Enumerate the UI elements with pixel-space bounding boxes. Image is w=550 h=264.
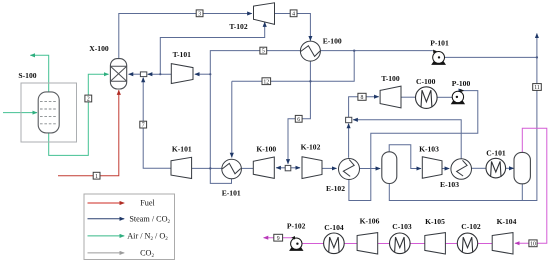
wire E-102 to V-100 xyxy=(360,168,380,170)
arrow on P-100 outlet xyxy=(460,90,464,92)
wire fuel feed red (stream 1) xyxy=(58,90,119,176)
wire V-101 bottom stub xyxy=(521,184,523,201)
pump P-100 xyxy=(451,89,465,104)
svg-text:X-100: X-100 xyxy=(89,44,109,53)
svg-text:K-100: K-100 xyxy=(256,145,276,154)
svg-text:C-103: C-103 xyxy=(392,222,412,231)
wire T-100 to C-100 xyxy=(401,96,416,98)
svg-text:E-100: E-100 xyxy=(323,37,342,46)
svg-text:K-102: K-102 xyxy=(301,143,321,152)
svg-text:8: 8 xyxy=(361,95,364,101)
wire splitter to K-102 xyxy=(291,167,300,169)
svg-text:S-100: S-100 xyxy=(18,71,36,80)
stream box 6 xyxy=(295,115,302,123)
heat exchanger E-103 xyxy=(451,159,472,180)
svg-text:12: 12 xyxy=(263,79,269,85)
svg-text:Steam / CO2: Steam / CO2 xyxy=(129,215,170,225)
stream box 7 xyxy=(140,121,147,129)
svg-text:P-101: P-101 xyxy=(430,39,449,48)
wire stream 5 E-100 left down to E-101 bottom loop xyxy=(210,51,300,184)
wire P-100 return loop to E-102 bottom xyxy=(349,91,478,201)
flash drum V-101 xyxy=(514,152,530,183)
pump P-101 xyxy=(431,50,446,65)
wire T-102 bottom feed xyxy=(160,22,264,74)
junction dot 1 xyxy=(209,167,211,169)
wire S-100 top green out xyxy=(30,55,48,92)
stream box 1 xyxy=(93,172,100,180)
svg-text:C-102: C-102 xyxy=(461,222,481,231)
cooler C-100 xyxy=(416,87,438,109)
svg-text:T-101: T-101 xyxy=(173,50,191,59)
wire E-103 to C-101 xyxy=(472,167,487,169)
compressor K-101 xyxy=(171,157,192,178)
stream box 12 xyxy=(262,78,271,86)
legend steam arrow xyxy=(88,218,125,220)
cooler C-103 xyxy=(390,233,411,254)
svg-text:Air / N2 / O2: Air / N2 / O2 xyxy=(127,232,168,242)
wire T-101 out to mixer node xyxy=(148,73,172,75)
wire air feed green into S-100 xyxy=(3,112,37,114)
S-100 enclosure xyxy=(21,83,77,142)
svg-text:K-105: K-105 xyxy=(425,217,445,226)
turbine T-102 xyxy=(254,3,275,25)
svg-text:Fuel: Fuel xyxy=(140,199,155,208)
heat exchanger E-102 xyxy=(339,159,360,180)
svg-text:10: 10 xyxy=(530,241,536,247)
vessel S-100 xyxy=(38,92,59,133)
stream box 5 xyxy=(260,47,267,55)
wire E-101 right to K-100 xyxy=(241,167,253,169)
heat exchanger E-100 xyxy=(300,41,320,61)
compressor K-104 xyxy=(492,233,513,254)
turbine T-101 xyxy=(171,64,193,84)
stream box 11 xyxy=(533,84,542,92)
wire X-100 top to T-102 (stream 3) xyxy=(119,14,252,59)
svg-text:C-100: C-100 xyxy=(416,77,436,86)
wire CO2 compression train line xyxy=(302,243,513,245)
heat exchanger E-101 xyxy=(222,159,242,179)
wire E-101 top feed xyxy=(231,81,233,157)
splitter node K-100/K-102 xyxy=(285,165,291,170)
legend fuel arrow xyxy=(88,202,125,204)
stream box 4 xyxy=(290,10,297,18)
svg-text:2: 2 xyxy=(87,97,90,103)
junction dot 5 xyxy=(159,73,161,75)
mixer X-100 xyxy=(110,59,126,89)
wire P-102 out CO2 product (stream 9) xyxy=(264,237,292,239)
svg-text:4: 4 xyxy=(292,11,295,17)
wire V-101 top CO2 magenta to K-104 (stream 10) xyxy=(515,128,547,243)
mixer node right of X-100 xyxy=(140,72,146,77)
legend air arrow xyxy=(88,235,125,237)
wire P-101 out xyxy=(444,56,537,58)
wire E-100 bottom to splitter (stream 6) xyxy=(288,61,310,164)
wire V-100 bottom to top-right exit (stream 11) xyxy=(389,34,537,201)
svg-text:E-101: E-101 xyxy=(222,189,241,198)
compressor K-100 xyxy=(253,157,274,178)
legend co2 arrow xyxy=(88,252,125,254)
svg-text:C-101: C-101 xyxy=(486,148,506,157)
legend box xyxy=(84,194,175,260)
stream box 3 xyxy=(196,10,203,18)
wire node to X-100 xyxy=(129,73,141,75)
wire S-100 bottom green to X-100 (stream 2) xyxy=(49,74,109,155)
svg-text:E-103: E-103 xyxy=(440,180,459,189)
svg-text:9: 9 xyxy=(277,236,280,242)
wire E-102 top to merge node xyxy=(348,124,350,158)
svg-text:K-101: K-101 xyxy=(172,145,192,154)
svg-text:E-102: E-102 xyxy=(326,184,345,193)
svg-text:T-100: T-100 xyxy=(381,74,399,83)
svg-text:T-102: T-102 xyxy=(229,22,247,31)
stream box 2 xyxy=(85,95,92,103)
compressor K-102 xyxy=(302,157,322,179)
svg-text:K-104: K-104 xyxy=(497,217,517,226)
cooler C-104 xyxy=(324,233,345,254)
wire C-101 to V-101 xyxy=(506,167,514,169)
junction dot 3 xyxy=(353,50,355,52)
svg-text:3: 3 xyxy=(198,11,201,17)
wire stream 12 return xyxy=(232,51,354,82)
wire T-102 out to E-100 top (stream 4) xyxy=(275,14,311,41)
merge node E-102/E-103 xyxy=(346,117,352,122)
wire K-102 to E-102 xyxy=(322,167,337,169)
svg-text:P-100: P-100 xyxy=(452,79,471,88)
wire K-103 to E-103 xyxy=(442,168,449,170)
cooler C-101 xyxy=(486,158,506,178)
wire V-100 top to K-103 xyxy=(389,145,421,169)
wire T-101 feed riser xyxy=(195,73,210,75)
compressor K-106 xyxy=(357,233,378,254)
stream box 10 xyxy=(529,240,537,248)
wire E-100 right to P-101 xyxy=(320,50,433,52)
svg-text:6: 6 xyxy=(297,117,300,123)
wire merge node to T-100 (stream 8) xyxy=(349,97,379,118)
svg-text:7: 7 xyxy=(142,123,145,129)
turbine T-100 xyxy=(380,86,401,108)
pump P-102 xyxy=(289,236,303,251)
svg-text:1: 1 xyxy=(95,174,98,180)
svg-text:P-102: P-102 xyxy=(287,221,306,230)
cooler C-102 xyxy=(457,233,477,253)
svg-text:11: 11 xyxy=(534,85,540,91)
stream box 9 xyxy=(274,234,283,242)
svg-text:5: 5 xyxy=(262,49,265,55)
junction dot 4 xyxy=(536,56,538,58)
svg-text:K-103: K-103 xyxy=(419,144,439,153)
compressor K-105 xyxy=(425,233,446,254)
wire K-101 out up to mixer node (stream 7) xyxy=(143,78,171,169)
compressor K-103 xyxy=(422,157,442,179)
flash drum V-100 xyxy=(382,152,397,184)
junction dot 2 xyxy=(309,80,311,82)
wire C-100 to P-100 xyxy=(437,96,452,98)
wire splitter to K-100 xyxy=(276,167,285,169)
wire E-101 left to K-101 xyxy=(191,167,222,169)
svg-text:C-104: C-104 xyxy=(324,223,344,232)
svg-text:K-106: K-106 xyxy=(360,217,380,226)
wire E-103 top to merge node xyxy=(353,120,461,159)
stream box 8 xyxy=(358,93,366,101)
